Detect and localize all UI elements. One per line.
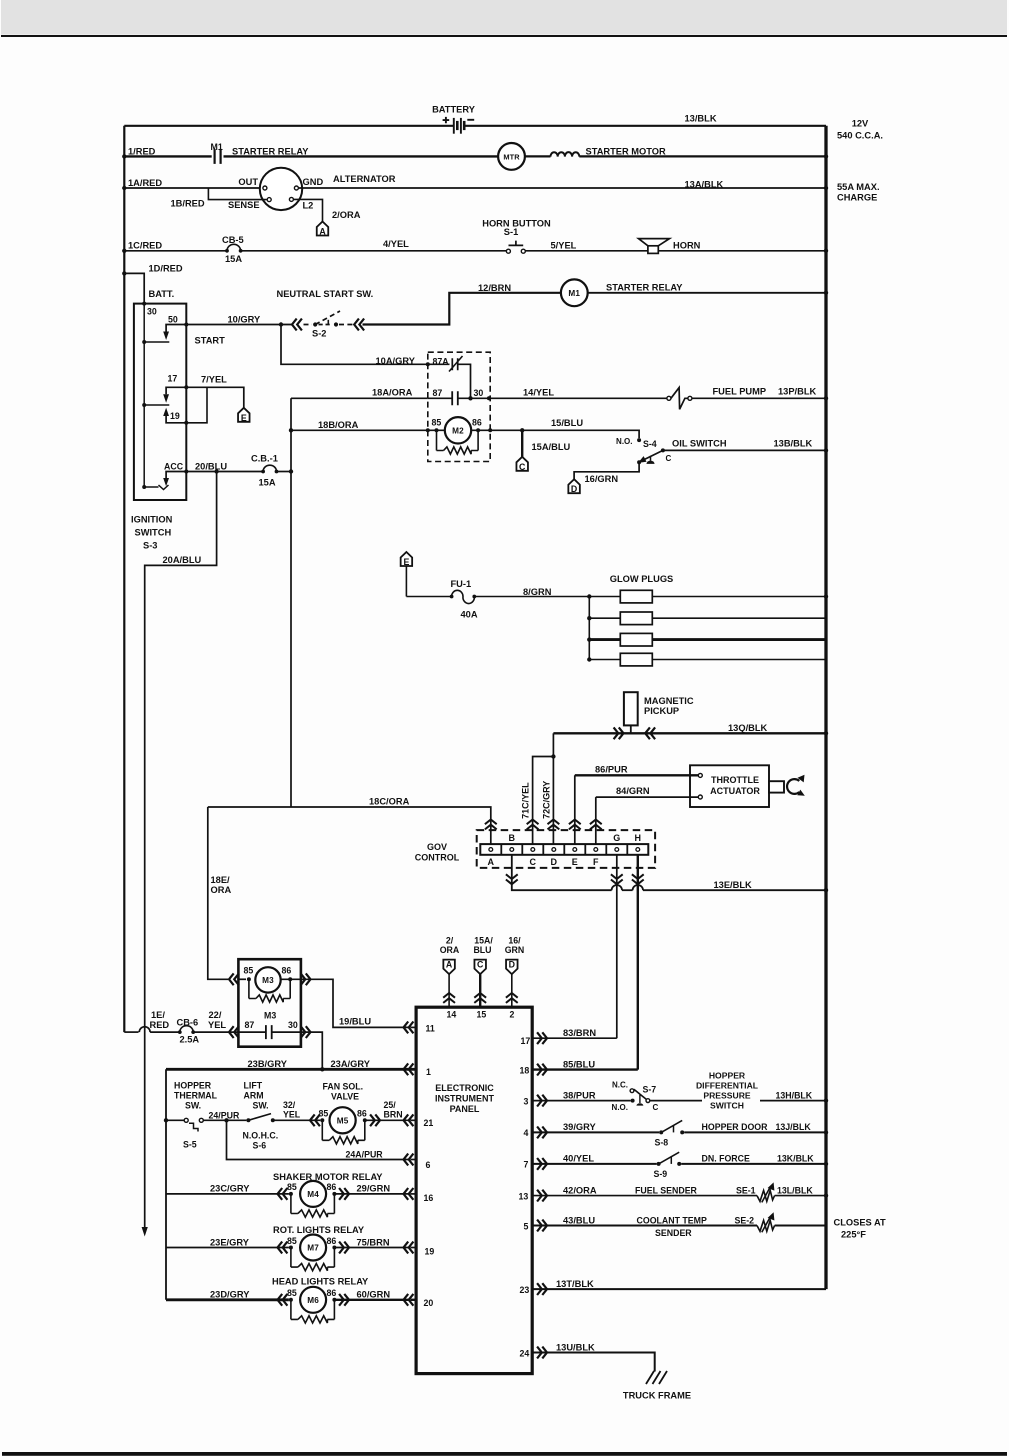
circuit breaker CB-6 2.5A xyxy=(178,1030,182,1034)
svg-text:19/BLU: 19/BLU xyxy=(339,1017,371,1027)
svg-text:4/YEL: 4/YEL xyxy=(383,239,409,249)
svg-text:32/: 32/ xyxy=(283,1100,296,1110)
svg-text:24A/PUR: 24A/PUR xyxy=(346,1149,384,1159)
wire 15/BLU M2 86 to oil switch xyxy=(490,430,639,438)
wire S-9 to right bus 13K/BLK xyxy=(681,1163,826,1165)
svg-text:M4: M4 xyxy=(307,1190,319,1199)
wire 23C/GRY to M4 xyxy=(166,1193,289,1195)
wire governor pin H down xyxy=(637,855,639,1070)
flag C drop 15A/BLU xyxy=(521,430,523,457)
svg-text:YEL: YEL xyxy=(208,1020,226,1030)
svg-text:23D/GRY: 23D/GRY xyxy=(210,1290,250,1300)
svg-text:ROT. LIGHTS RELAY: ROT. LIGHTS RELAY xyxy=(273,1225,365,1235)
svg-text:71C/YEL: 71C/YEL xyxy=(521,782,531,819)
svg-text:13J/BLK: 13J/BLK xyxy=(776,1122,812,1132)
svg-text:D: D xyxy=(571,484,577,494)
svg-text:THERMAL: THERMAL xyxy=(174,1091,218,1101)
svg-text:14: 14 xyxy=(447,1009,457,1019)
svg-text:2.5A: 2.5A xyxy=(180,1035,200,1045)
svg-text:START: START xyxy=(195,336,226,346)
wire 2/ORA from L2 to flag A xyxy=(294,199,323,221)
svg-text:30: 30 xyxy=(474,388,484,398)
wire 23E/GRY to M7 xyxy=(166,1247,289,1249)
svg-text:18B/ORA: 18B/ORA xyxy=(318,420,359,430)
wire 75/BRN M7 to panel pin 19 xyxy=(339,1242,349,1254)
svg-text:E: E xyxy=(403,557,409,567)
wire alternator GND to right bus 13A/BLK xyxy=(299,187,826,189)
svg-text:13U/BLK: 13U/BLK xyxy=(556,1342,595,1352)
fuse FU-1 40A xyxy=(406,596,451,598)
svg-text:A: A xyxy=(446,960,453,970)
flag D xyxy=(568,479,580,493)
relay M3 box xyxy=(238,959,301,1046)
wire 5/YEL horn button to horn xyxy=(525,250,648,252)
svg-text:50: 50 xyxy=(168,315,178,325)
svg-text:15A: 15A xyxy=(259,477,276,487)
svg-text:ARM: ARM xyxy=(244,1091,264,1101)
svg-text:19: 19 xyxy=(425,1246,435,1256)
wire 14/YEL M2 30 to fuel pump xyxy=(489,397,667,399)
svg-text:5: 5 xyxy=(524,1221,529,1231)
svg-text:S-6: S-6 xyxy=(253,1140,267,1150)
svg-text:40/YEL: 40/YEL xyxy=(563,1154,594,1164)
svg-text:1B/RED: 1B/RED xyxy=(171,199,205,209)
svg-text:D: D xyxy=(509,960,515,970)
svg-text:18: 18 xyxy=(520,1066,530,1076)
svg-text:1D/RED: 1D/RED xyxy=(149,263,183,273)
svg-text:MAGNETIC: MAGNETIC xyxy=(644,696,694,706)
flag A (to governor pin A) xyxy=(317,222,329,236)
svg-text:S-5: S-5 xyxy=(183,1139,197,1149)
svg-text:FAN SOL.: FAN SOL. xyxy=(323,1082,364,1092)
svg-text:13A/BLK: 13A/BLK xyxy=(685,180,724,190)
ignition contact 19 xyxy=(166,416,186,423)
svg-text:BATT.: BATT. xyxy=(149,289,175,299)
wire 23B/GRY 23A/GRY row to panel pin 1 xyxy=(166,1068,416,1071)
svg-text:RED: RED xyxy=(150,1020,170,1030)
svg-text:S-4: S-4 xyxy=(643,439,657,449)
svg-text:16: 16 xyxy=(424,1193,434,1203)
svg-text:225°F: 225°F xyxy=(841,1230,866,1240)
svg-text:B: B xyxy=(509,833,516,843)
svg-text:540 C.C.A.: 540 C.C.A. xyxy=(837,131,883,141)
glow plug 2 xyxy=(589,617,620,619)
svg-text:13L/BLK: 13L/BLK xyxy=(777,1186,813,1196)
svg-text:N.O.: N.O. xyxy=(612,1103,628,1112)
svg-text:N.O.: N.O. xyxy=(616,437,632,446)
svg-text:23A/GRY: 23A/GRY xyxy=(331,1059,371,1069)
svg-text:86: 86 xyxy=(472,417,482,427)
svg-text:30: 30 xyxy=(288,1020,298,1030)
svg-text:85: 85 xyxy=(287,1182,297,1192)
svg-text:SWITCH: SWITCH xyxy=(135,528,172,538)
wire M1 coil to right bus xyxy=(588,292,826,294)
wire row 1/RED to starter motor xyxy=(124,155,211,157)
svg-text:M3: M3 xyxy=(264,1011,276,1021)
svg-text:A: A xyxy=(319,226,326,236)
svg-text:86: 86 xyxy=(327,1236,337,1246)
svg-text:21: 21 xyxy=(424,1118,434,1128)
svg-text:HORN: HORN xyxy=(673,241,701,251)
wire 7/YEL ignition 17 to flag E xyxy=(186,387,244,408)
svg-text:85: 85 xyxy=(432,417,442,427)
svg-text:DN. FORCE: DN. FORCE xyxy=(702,1154,751,1164)
ignition contact 50 START xyxy=(166,325,186,332)
svg-text:18A/ORA: 18A/ORA xyxy=(372,388,413,398)
svg-text:SW.: SW. xyxy=(253,1101,269,1111)
wire 84/GRN to throttle actuator xyxy=(596,796,699,798)
wire left distribution vertical 23-feed xyxy=(165,1069,167,1300)
battery xyxy=(453,118,455,134)
svg-text:FUEL SENDER: FUEL SENDER xyxy=(635,1186,698,1196)
svg-text:11: 11 xyxy=(426,1023,435,1033)
contact 87A normally-closed xyxy=(426,362,430,366)
svg-text:F: F xyxy=(593,857,599,867)
wire 13T/BLK panel 23 to right bus xyxy=(532,1288,826,1290)
svg-text:23B/GRY: 23B/GRY xyxy=(248,1059,288,1069)
switch S-2 neutral start xyxy=(281,324,292,326)
wire 42/ORA panel 13 to fuel sender xyxy=(532,1195,757,1197)
svg-text:23: 23 xyxy=(520,1285,530,1295)
wire CB-5 to horn button 4/YEL xyxy=(241,250,507,252)
svg-text:87: 87 xyxy=(433,388,443,398)
svg-text:23E/GRY: 23E/GRY xyxy=(210,1237,250,1247)
switch S-9 down force xyxy=(657,1162,661,1166)
svg-text:DIFFERENTIAL: DIFFERENTIAL xyxy=(696,1081,758,1091)
svg-text:CB-6: CB-6 xyxy=(177,1017,199,1027)
svg-text:BLU: BLU xyxy=(473,945,491,955)
wire 40/YEL panel 7 to down force switch xyxy=(532,1163,656,1165)
svg-text:STARTER RELAY: STARTER RELAY xyxy=(232,147,309,157)
wire 39/GRY panel 4 to hopper door switch xyxy=(532,1131,659,1133)
svg-text:SE-1: SE-1 xyxy=(736,1186,756,1196)
svg-text:CLOSES AT: CLOSES AT xyxy=(834,1217,886,1227)
svg-text:2/: 2/ xyxy=(446,935,454,945)
svg-text:C: C xyxy=(666,454,672,463)
svg-text:S-1: S-1 xyxy=(504,227,518,237)
wire 18E/ORA down to relay M3 xyxy=(208,807,228,979)
wire coil to right bus xyxy=(579,155,826,157)
wire 86/PUR to throttle actuator xyxy=(575,774,699,776)
svg-text:23C/GRY: 23C/GRY xyxy=(210,1184,250,1194)
svg-text:10A/GRY: 10A/GRY xyxy=(376,356,416,366)
svg-text:M7: M7 xyxy=(307,1244,319,1253)
svg-text:ELECTRONIC: ELECTRONIC xyxy=(435,1083,494,1093)
svg-text:86: 86 xyxy=(357,1108,367,1118)
relay coil M3 xyxy=(229,973,239,985)
relay coil M1 starter relay xyxy=(561,279,588,306)
svg-text:20: 20 xyxy=(424,1298,434,1308)
glow plug 1 xyxy=(589,596,620,598)
flag E glow plug feed xyxy=(401,552,413,566)
svg-text:83/BRN: 83/BRN xyxy=(563,1028,596,1038)
svg-text:17: 17 xyxy=(521,1036,531,1046)
svg-text:2: 2 xyxy=(510,1009,515,1019)
wire 20A/BLU long run xyxy=(145,472,217,1228)
svg-text:12/BRN: 12/BRN xyxy=(478,283,511,293)
svg-text:S-2: S-2 xyxy=(312,328,326,338)
svg-text:3: 3 xyxy=(524,1096,529,1106)
svg-text:GLOW PLUGS: GLOW PLUGS xyxy=(610,574,674,584)
svg-text:CB-5: CB-5 xyxy=(222,235,244,245)
svg-text:15A: 15A xyxy=(225,254,242,264)
electronic instrument panel box xyxy=(416,1007,532,1373)
svg-text:SHAKER MOTOR RELAY: SHAKER MOTOR RELAY xyxy=(273,1172,383,1182)
svg-text:C: C xyxy=(477,960,484,970)
svg-text:VALVE: VALVE xyxy=(331,1092,359,1102)
svg-text:THROTTLE: THROTTLE xyxy=(711,775,759,785)
svg-text:PICKUP: PICKUP xyxy=(644,706,679,716)
svg-text:C: C xyxy=(530,857,537,867)
wire 1E/RED left bus to CB-6 xyxy=(124,1031,138,1033)
motor MTR (starter motor) xyxy=(498,143,525,170)
svg-text:20A/BLU: 20A/BLU xyxy=(163,555,202,565)
svg-text:HEAD LIGHTS RELAY: HEAD LIGHTS RELAY xyxy=(272,1276,369,1286)
svg-text:13T/BLK: 13T/BLK xyxy=(556,1279,594,1289)
svg-text:ORA: ORA xyxy=(211,885,232,895)
wire governor pin G down xyxy=(616,855,618,1038)
wire CB-1 to 18-feed vertical xyxy=(277,471,292,473)
svg-text:SWITCH: SWITCH xyxy=(710,1101,744,1111)
relay contact M1 (starter relay contact) xyxy=(215,149,221,164)
ignition contact ACC xyxy=(166,472,186,479)
svg-text:S-3: S-3 xyxy=(143,541,157,551)
svg-text:25/: 25/ xyxy=(384,1100,397,1110)
wire 18C/ORA to governor pin A xyxy=(208,807,491,844)
svg-text:14/YEL: 14/YEL xyxy=(523,388,554,398)
wire MTR to coil xyxy=(525,155,551,157)
svg-text:N.O.H.C.: N.O.H.C. xyxy=(243,1131,279,1141)
svg-text:STARTER MOTOR: STARTER MOTOR xyxy=(586,146,667,156)
svg-text:C: C xyxy=(653,1103,659,1112)
wire 85/BLU panel 18 to governor H xyxy=(532,1068,638,1070)
svg-text:85/BLU: 85/BLU xyxy=(563,1059,595,1069)
svg-text:5/YEL: 5/YEL xyxy=(551,241,577,251)
svg-text:85: 85 xyxy=(319,1108,329,1118)
svg-text:E: E xyxy=(572,857,578,867)
svg-text:1/RED: 1/RED xyxy=(128,146,156,156)
wire 32/YEL S-6 to fan solenoid valve xyxy=(273,1119,321,1121)
wire row 1A/RED to alternator OUT xyxy=(124,187,262,189)
svg-text:M3: M3 xyxy=(262,976,274,985)
sender SE-1 fuel level xyxy=(757,1190,775,1201)
svg-text:1A/RED: 1A/RED xyxy=(128,178,162,188)
svg-text:55A MAX.: 55A MAX. xyxy=(837,182,880,192)
flag E destination xyxy=(238,408,250,422)
svg-text:YEL: YEL xyxy=(283,1110,301,1120)
svg-text:SENSE: SENSE xyxy=(228,200,260,210)
svg-text:19: 19 xyxy=(170,411,180,421)
svg-text:86: 86 xyxy=(327,1182,337,1192)
svg-text:S-7: S-7 xyxy=(643,1085,657,1095)
svg-text:13P/BLK: 13P/BLK xyxy=(778,386,817,396)
svg-text:HOPPER: HOPPER xyxy=(709,1071,746,1081)
svg-text:17: 17 xyxy=(168,373,178,383)
switch S-8 hopper door xyxy=(659,1130,663,1134)
wire 29/GRN M4 to panel pin 16 xyxy=(339,1188,349,1200)
svg-text:43/BLU: 43/BLU xyxy=(563,1215,595,1225)
svg-text:16/: 16/ xyxy=(508,935,521,945)
svg-text:15A/: 15A/ xyxy=(474,935,493,945)
glow plug 4 xyxy=(589,659,620,661)
svg-text:13: 13 xyxy=(519,1191,529,1201)
svg-text:24: 24 xyxy=(520,1348,530,1358)
wire 83/BRN panel 17 to governor G xyxy=(532,1037,617,1039)
governor control connector xyxy=(477,830,655,868)
svg-text:NEUTRAL START SW.: NEUTRAL START SW. xyxy=(277,289,374,299)
svg-text:ACC: ACC xyxy=(164,461,184,471)
wire 38/PUR panel 3 to pressure switch xyxy=(532,1100,630,1102)
svg-text:GOV: GOV xyxy=(427,842,447,852)
svg-text:18E/: 18E/ xyxy=(211,875,231,885)
svg-text:75/BRN: 75/BRN xyxy=(357,1237,390,1247)
wire N.C. to flag D 16/GRN xyxy=(637,460,641,464)
svg-text:STARTER RELAY: STARTER RELAY xyxy=(606,282,683,292)
wire 60/GRN M6 to panel pin 20 xyxy=(339,1294,349,1306)
switch S-7 hopper differential pressure xyxy=(631,1099,635,1103)
wire 19/BLU M3 86 to panel pin 11 xyxy=(301,973,311,985)
wire 20/BLU ACC row to CB-1 xyxy=(186,471,263,473)
wire 1B/RED to SENSE xyxy=(208,188,266,200)
svg-text:86: 86 xyxy=(282,966,292,976)
svg-text:1E/: 1E/ xyxy=(151,1010,165,1020)
wire: top battery bus 12V xyxy=(124,125,453,127)
svg-text:GRN: GRN xyxy=(505,945,525,955)
svg-text:MTR: MTR xyxy=(503,153,520,162)
ignition switch internal BATT bus xyxy=(143,304,145,487)
svg-text:BATTERY: BATTERY xyxy=(432,104,476,114)
svg-text:A: A xyxy=(488,857,495,867)
svg-text:60/GRN: 60/GRN xyxy=(357,1290,391,1300)
wire ignition 19 to 7/YEL xyxy=(186,387,207,423)
magnetic pickup xyxy=(624,692,638,725)
svg-text:40A: 40A xyxy=(461,610,478,620)
ground truck frame xyxy=(646,1371,667,1384)
svg-text:SW.: SW. xyxy=(185,1101,201,1111)
svg-text:10/GRY: 10/GRY xyxy=(228,314,262,324)
wire S-7 to right bus 13H/BLK xyxy=(650,1100,702,1102)
svg-text:OUT: OUT xyxy=(238,177,258,187)
svg-text:TRUCK FRAME: TRUCK FRAME xyxy=(623,1390,691,1400)
svg-text:G: G xyxy=(613,833,620,843)
svg-text:M1: M1 xyxy=(211,142,223,152)
ignition contact 17 xyxy=(166,387,186,394)
svg-text:S-8: S-8 xyxy=(655,1137,669,1147)
wire 24/PUR S-5 to lift arm switch xyxy=(203,1119,246,1121)
svg-text:FUEL PUMP: FUEL PUMP xyxy=(713,386,767,396)
throttle actuator xyxy=(690,765,769,807)
wire 71C/YEL 72C/GRY to governor pins C D xyxy=(552,733,554,844)
svg-text:INSTRUMENT: INSTRUMENT xyxy=(435,1093,494,1103)
svg-text:13K/BLK: 13K/BLK xyxy=(777,1154,814,1164)
svg-text:30: 30 xyxy=(147,307,157,317)
svg-text:PRESSURE: PRESSURE xyxy=(703,1091,751,1101)
svg-text:13Q/BLK: 13Q/BLK xyxy=(728,723,768,733)
svg-text:CONTROL: CONTROL xyxy=(415,853,460,863)
wire 18A/ORA to M2 87 xyxy=(291,397,428,399)
inductor: starter motor winding xyxy=(551,152,580,156)
circuit breaker CB-5 15A xyxy=(225,249,229,253)
wire fuel pump to right bus xyxy=(692,397,826,399)
wire horn to right bus xyxy=(658,250,826,252)
svg-text:86: 86 xyxy=(327,1288,337,1298)
svg-text:13E/BLK: 13E/BLK xyxy=(714,880,753,890)
svg-text:OIL SWITCH: OIL SWITCH xyxy=(672,438,727,448)
wire 13U/BLK panel 24 to truck frame ground xyxy=(532,1353,655,1372)
svg-text:SE-2: SE-2 xyxy=(735,1215,755,1225)
circuit breaker C.B.-1 15A xyxy=(261,470,265,474)
sender SE-2 coolant temp xyxy=(757,1220,775,1231)
wire 43/BLU panel 5 to coolant temp sender xyxy=(532,1225,757,1227)
svg-text:H: H xyxy=(635,833,642,843)
wire 10/GRY row 50 to neutral start switch xyxy=(186,324,281,326)
svg-text:86/PUR: 86/PUR xyxy=(595,764,628,774)
svg-text:72C/GRY: 72C/GRY xyxy=(542,781,552,819)
svg-text:13/BLK: 13/BLK xyxy=(685,114,717,124)
svg-text:13H/BLK: 13H/BLK xyxy=(776,1091,813,1101)
svg-text:ACTUATOR: ACTUATOR xyxy=(710,786,760,796)
glow plug feed vertical xyxy=(588,597,590,660)
svg-text:ORA: ORA xyxy=(440,945,460,955)
svg-text:42/ORA: 42/ORA xyxy=(563,1186,597,1196)
svg-text:85: 85 xyxy=(244,966,254,976)
glow plug 3 xyxy=(589,638,620,641)
wire M3 30 down to 23B/GRY row xyxy=(301,1026,311,1038)
svg-text:39/GRY: 39/GRY xyxy=(563,1122,597,1132)
horn xyxy=(639,239,670,246)
switch S-1 horn button xyxy=(506,249,510,253)
svg-text:LIFT: LIFT xyxy=(244,1081,263,1091)
alternator xyxy=(260,168,302,210)
svg-text:E: E xyxy=(241,413,247,423)
svg-text:BRN: BRN xyxy=(384,1110,403,1120)
svg-text:ALTERNATOR: ALTERNATOR xyxy=(333,174,396,184)
wire: left bus 1/RED vertical xyxy=(123,126,125,1032)
wire 13E/BLK governor pin B to right bus xyxy=(512,855,612,890)
ignition switch S-3 box xyxy=(134,304,186,500)
svg-text:M5: M5 xyxy=(337,1116,349,1125)
svg-text:M1: M1 xyxy=(568,289,580,298)
wire 22/YEL CB-6 to M3 87 xyxy=(193,1031,238,1033)
wire S-8 to right bus 13J/BLK xyxy=(684,1131,826,1133)
wire oil switch C to right bus 13B/BLK xyxy=(663,449,826,451)
svg-text:15/BLU: 15/BLU xyxy=(551,418,583,428)
svg-text:20/BLU: 20/BLU xyxy=(195,462,227,472)
svg-text:87: 87 xyxy=(245,1020,255,1030)
wire: right bus 13/BLK ground vertical xyxy=(824,126,827,1289)
svg-text:7/YEL: 7/YEL xyxy=(201,374,227,384)
svg-text:85: 85 xyxy=(287,1288,297,1298)
svg-text:15A/BLU: 15A/BLU xyxy=(532,442,571,452)
svg-text:8/GRN: 8/GRN xyxy=(523,587,552,597)
wire 18-feed vertical from CB-1 xyxy=(290,398,292,807)
wire 8/GRN fuse to glow plugs xyxy=(474,596,589,598)
wire row 1C/RED xyxy=(124,250,227,252)
svg-text:SENDER: SENDER xyxy=(655,1228,692,1238)
svg-text:HOPPER DOOR: HOPPER DOOR xyxy=(702,1122,769,1132)
wire 24A/PUR to panel pin 6 xyxy=(227,1120,411,1159)
svg-text:12V: 12V xyxy=(852,118,869,128)
svg-text:N.C.: N.C. xyxy=(612,1081,628,1090)
svg-text:38/PUR: 38/PUR xyxy=(563,1091,596,1101)
wire 1D/RED branch to ignition switch xyxy=(124,273,144,303)
svg-text:24/PUR: 24/PUR xyxy=(209,1111,240,1121)
svg-text:IGNITION: IGNITION xyxy=(131,515,173,525)
svg-text:HOPPER: HOPPER xyxy=(174,1081,212,1091)
svg-text:6: 6 xyxy=(426,1160,431,1170)
wire SE-1 to right bus 13L/BLK xyxy=(775,1195,826,1197)
wire 23D/GRY to M6 xyxy=(166,1298,289,1301)
